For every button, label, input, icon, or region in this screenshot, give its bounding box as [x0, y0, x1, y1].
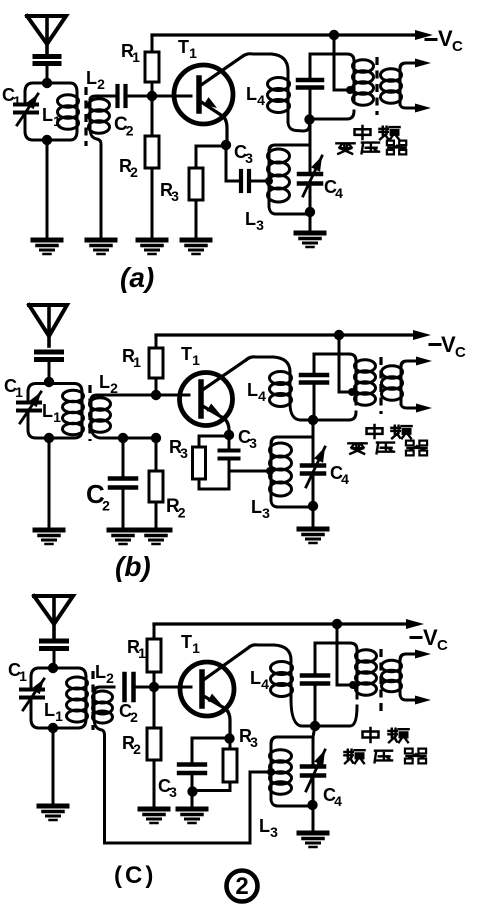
svg-text:1: 1	[53, 113, 61, 129]
svg-text:L: L	[99, 372, 110, 392]
IF transformer core (b)	[379, 357, 382, 414]
svg-text:1: 1	[133, 354, 141, 370]
circuit (c) antenna coupling capacitor	[42, 641, 67, 667]
label L3 (b)	[251, 497, 270, 521]
inductor L2 (b)	[90, 395, 190, 438]
capacitor C2 (a)	[118, 86, 126, 106]
label T1 (b)	[181, 344, 200, 368]
wire: tank junction to L3 loop (b)	[312, 420, 315, 464]
node: primary tap (a)	[346, 86, 354, 94]
label 变压器 (a)	[336, 141, 406, 155]
svg-text:L: L	[247, 380, 258, 400]
svg-text:L: L	[42, 401, 53, 421]
svg-text:1: 1	[132, 49, 140, 65]
svg-text:L: L	[245, 209, 256, 229]
node: tank bottom junction (a)	[42, 135, 52, 145]
wire: IF tank top (b)	[314, 354, 356, 361]
resistor R3 (c)	[194, 738, 237, 791]
svg-text:C: C	[452, 38, 463, 55]
node: base junction (a)	[147, 91, 157, 101]
IF transformer core (c)	[379, 649, 382, 713]
wire: base (a)	[152, 95, 191, 98]
label (b)	[115, 551, 151, 582]
node: antenna-tank junction (c)	[48, 663, 58, 673]
svg-text:3: 3	[256, 217, 264, 233]
svg-text:T: T	[178, 37, 189, 57]
capacitor: IF tank cap (b)	[301, 354, 327, 419]
label (C)	[114, 862, 156, 889]
resistor R1 (b)	[149, 335, 163, 395]
wire: tank bottom (c)	[31, 719, 86, 728]
label R3 (a)	[160, 180, 179, 204]
label L2 (a)	[86, 68, 105, 92]
svg-text:4: 4	[258, 388, 266, 404]
ground (a) L2	[87, 240, 115, 254]
ground (c) L1 tank	[39, 806, 67, 820]
svg-text:1: 1	[53, 409, 61, 425]
IF transformer core (a)	[375, 57, 378, 115]
label C1 (a)	[2, 85, 21, 109]
node: collector tank bottom junction (b)	[308, 415, 318, 425]
svg-text:L: L	[44, 700, 55, 720]
label L1 (a)	[42, 105, 61, 129]
circuit (b) antenna coupling capacitor	[37, 352, 62, 381]
svg-text:1: 1	[55, 708, 63, 724]
label R3 (b)	[169, 437, 188, 461]
label 频压器 (c)	[344, 749, 426, 764]
node: emitter junction (c)	[224, 733, 234, 743]
inductor L4 (a)	[268, 54, 310, 131]
inductor L2 (a)	[89, 96, 117, 240]
svg-text:3: 3	[249, 435, 257, 451]
figure number 2 circled	[227, 871, 258, 902]
ground (b) L3 C4	[299, 506, 327, 543]
svg-text:2: 2	[97, 76, 105, 92]
svg-text:1: 1	[189, 45, 197, 61]
ground (c) C3 R3	[178, 791, 206, 823]
resistor R2 (a)	[145, 96, 159, 240]
wire: supply rail (c)	[154, 619, 424, 629]
label L4 (a)	[246, 84, 265, 108]
IF transformer primary coil (a)	[310, 60, 374, 119]
svg-text:T: T	[181, 632, 192, 652]
capacitor C3 (b)	[220, 436, 239, 489]
node: base junction (b)	[151, 390, 161, 400]
inductor L3 (b)	[270, 437, 312, 507]
label R2 (b)	[166, 496, 186, 520]
inductor L4 (b)	[270, 357, 312, 420]
svg-text:4: 4	[335, 185, 343, 201]
node: base junction (c)	[149, 682, 159, 692]
inductor L1 (b)	[63, 390, 84, 435]
svg-text:(a): (a)	[120, 262, 154, 293]
circuit (a) antenna coupling capacitor	[35, 57, 59, 83]
node: emitter junction (a)	[221, 140, 231, 150]
svg-text:2: 2	[133, 741, 141, 757]
capacitor C4 (a) variable	[299, 156, 322, 212]
resistor R2 (b)	[149, 438, 163, 530]
label L3 (c)	[259, 816, 278, 840]
label C2 (b)	[86, 479, 110, 513]
wire: tank bottom (b)	[28, 430, 82, 438]
node: tank bottom junction (b)	[44, 433, 54, 443]
svg-text:L: L	[246, 84, 257, 104]
svg-text:4: 4	[341, 471, 349, 487]
transistor T1 (a)	[174, 56, 243, 145]
wire: emitter network to L3 tap (b)	[229, 470, 269, 473]
wire: tank top (b)	[28, 384, 82, 393]
label C3 (b)	[238, 427, 257, 451]
ground (a) R3	[182, 240, 210, 254]
node: collector tank bottom junction (a)	[304, 114, 314, 124]
node: primary tap (c)	[349, 681, 357, 689]
svg-text:3: 3	[250, 734, 258, 750]
ground (b) R2	[142, 530, 170, 544]
node: antenna-tank junction (b)	[44, 377, 54, 387]
label L3 (a)	[245, 209, 264, 233]
label -Vc (b)	[430, 332, 466, 361]
circuit (b) antenna	[29, 305, 67, 346]
label L4 (b)	[247, 380, 266, 404]
svg-text:3: 3	[262, 505, 270, 521]
label C1 (b)	[4, 376, 23, 400]
inductor L3 (c)	[270, 737, 313, 806]
node: L3 tap (c)	[267, 768, 275, 776]
svg-text:3: 3	[180, 445, 188, 461]
capacitor C1 (b) variable	[18, 392, 41, 430]
svg-text:2: 2	[106, 670, 114, 686]
node: collector tank bottom junction (c)	[310, 721, 320, 731]
node: tank bottom junction (c)	[48, 723, 58, 733]
wire: feedback bottom run (c)	[105, 772, 270, 843]
ferrite core dashed line (c)	[91, 671, 94, 730]
node: emitter junction (b)	[224, 430, 234, 440]
label L1 (b)	[42, 401, 61, 425]
svg-text:4: 4	[257, 92, 265, 108]
svg-text:1: 1	[138, 645, 146, 661]
IF transformer secondary coil (a)	[381, 59, 432, 113]
svg-text:3: 3	[245, 150, 253, 166]
svg-text:1: 1	[192, 352, 200, 368]
svg-text:L: L	[42, 105, 53, 125]
wire: IF tank top (c)	[315, 643, 357, 650]
svg-text:L: L	[250, 668, 261, 688]
wire: collector to L4 (c)	[248, 645, 274, 648]
node: L3 bottom junction (b)	[308, 501, 318, 511]
capacitor C3 (a)	[226, 146, 268, 191]
svg-text:2: 2	[102, 497, 110, 513]
label C4 (c)	[323, 785, 342, 809]
resistor R3 (a)	[189, 168, 203, 240]
label L2 (c)	[95, 662, 114, 686]
resistor R1 (a)	[145, 35, 159, 96]
resistor R3 (b)	[193, 447, 229, 489]
label L2 (b)	[99, 372, 118, 396]
label T1 (a)	[178, 37, 197, 61]
node: R2 top junction (b)	[151, 433, 161, 443]
wire: base (c)	[154, 686, 191, 689]
label 中频 (c)	[363, 728, 409, 742]
node: L3 bottom junction (c)	[307, 800, 317, 810]
ground (a) L3 C4	[296, 212, 324, 247]
wire: Vc tap to primary (b)	[339, 335, 352, 392]
label R3 (c)	[239, 726, 258, 750]
wire: L2 bottom to R2 (b)	[123, 437, 156, 440]
wire: tank to L3 loop (a)	[309, 119, 312, 172]
node: antenna-tank junction (a)	[42, 78, 52, 88]
IF transformer secondary coil (c)	[382, 650, 432, 705]
capacitor C2 (c)	[125, 674, 134, 700]
inductor L4 (c)	[271, 645, 313, 726]
wire: tank to ground (b)	[48, 438, 51, 530]
svg-text:3: 3	[169, 784, 177, 800]
label 中频 (a)	[355, 126, 400, 139]
wire: supply rail (a)	[152, 30, 433, 40]
wire: emitter node to R3 (a)	[196, 146, 224, 168]
svg-text:2: 2	[130, 164, 138, 180]
svg-text:2: 2	[178, 504, 186, 520]
svg-text:V: V	[438, 26, 453, 51]
label C1 (c)	[8, 660, 27, 684]
ferrite core dashed line (a)	[84, 87, 87, 146]
label C2 (a)	[114, 114, 134, 138]
label C4 (a)	[324, 177, 343, 201]
label T1 (c)	[181, 632, 200, 656]
node: rail junction (c)	[332, 619, 342, 629]
svg-text:4: 4	[261, 676, 269, 692]
svg-text:T: T	[181, 344, 192, 364]
svg-text:(b): (b)	[115, 551, 151, 582]
wire: collector to L4 (b)	[246, 357, 273, 360]
label R1 (a)	[121, 41, 140, 65]
svg-text:V: V	[441, 332, 456, 357]
svg-text:2: 2	[235, 873, 248, 900]
node: primary tap (b)	[348, 388, 356, 396]
svg-text:2: 2	[126, 122, 134, 138]
IF transformer primary coil (c)	[315, 650, 377, 726]
svg-text:4: 4	[334, 793, 342, 809]
IF transformer secondary coil (b)	[382, 357, 433, 413]
inductor L1 (a)	[58, 92, 79, 131]
svg-text:1: 1	[13, 93, 21, 109]
transistor T1 (b)	[180, 360, 247, 435]
capacitor C4 (c) variable	[302, 750, 325, 804]
label L1 (c)	[44, 700, 63, 724]
wire: tank junction to L3 loop (c)	[313, 726, 315, 765]
wire: C2 to base (c)	[135, 686, 152, 689]
node: rail junction (b)	[334, 330, 344, 340]
inductor L1 (c)	[67, 677, 88, 722]
svg-text:C: C	[437, 637, 448, 654]
node: L3 tap (a)	[265, 177, 273, 185]
IF transformer primary coil (b)	[313, 360, 376, 420]
label 变压器 (b)	[348, 441, 427, 456]
label R2 (a)	[119, 156, 138, 180]
wire: tank bottom (a)	[25, 131, 77, 140]
label 中频 (b)	[367, 425, 412, 438]
label -Vc (a)	[426, 26, 463, 55]
label C3 (c)	[158, 776, 177, 800]
svg-text:1: 1	[19, 668, 27, 684]
ground (a) R2	[138, 240, 166, 254]
svg-text:V: V	[423, 625, 438, 650]
svg-text:1: 1	[15, 384, 23, 400]
svg-text:C: C	[455, 344, 466, 361]
capacitor C1 (a) variable	[15, 92, 38, 131]
svg-text:2: 2	[110, 380, 118, 396]
wire: Vc tap to primary (a)	[334, 35, 350, 90]
label R1 (c)	[127, 637, 146, 661]
ground (b) C2	[109, 530, 137, 544]
inductor L3 (a)	[268, 145, 309, 214]
capacitor C3 (c)	[179, 738, 205, 791]
capacitor C1 (c) variable	[21, 677, 44, 719]
wire: tank to ground (a)	[46, 140, 49, 240]
label R1 (b)	[122, 346, 141, 370]
capacitor: IF tank cap (a)	[298, 54, 322, 119]
circuit (c) antenna	[34, 596, 73, 639]
svg-text:L: L	[86, 68, 97, 88]
capacitor C4 (b) variable	[302, 447, 325, 506]
wire: IF tank top (a)	[310, 54, 354, 61]
svg-text:1: 1	[192, 640, 200, 656]
wire: tank top (a)	[25, 83, 77, 92]
node: rail junction (a)	[329, 30, 339, 40]
svg-text:L: L	[259, 816, 270, 836]
label (a)	[120, 262, 154, 293]
svg-text:(C): (C)	[114, 862, 156, 889]
ground (a) L1 tank	[33, 240, 61, 254]
wire: Vc tap to primary (c)	[337, 624, 353, 685]
label R2 (c)	[122, 733, 141, 757]
ground (c) L3 C4	[299, 805, 327, 847]
svg-text:3: 3	[270, 824, 278, 840]
svg-text:2: 2	[130, 709, 138, 725]
wire: collector to L4 (a)	[243, 54, 271, 56]
transistor T1 (c)	[180, 648, 248, 739]
inductor L2 (c)	[93, 687, 115, 843]
node: C3 R3 bottom junction (c)	[187, 786, 197, 796]
svg-text:L: L	[251, 497, 262, 517]
capacitor C2 (b)	[110, 438, 136, 530]
wire: tank top (c)	[31, 668, 86, 677]
ground (c) R2	[140, 809, 168, 823]
circuit (a) antenna	[27, 16, 66, 53]
wire: C2 to base (a)	[127, 95, 150, 98]
resistor R2 (c)	[147, 687, 161, 809]
svg-text:L: L	[95, 662, 106, 682]
wire: emitter node to R3 (b)	[199, 436, 227, 447]
resistor R1 (c)	[147, 624, 161, 687]
ferrite core dashed line (b)	[88, 385, 91, 441]
capacitor: IF tank cap (c)	[302, 643, 328, 724]
node: L2 bottom junction (b)	[118, 433, 128, 443]
wire: supply rail (b)	[156, 330, 431, 340]
label C2 (c)	[119, 701, 138, 725]
node: L3 tap (b)	[266, 467, 274, 475]
node: L3 bottom junction (a)	[305, 207, 315, 217]
label C3 (a)	[234, 142, 253, 166]
label L4 (c)	[250, 668, 269, 692]
label C4 (b)	[330, 463, 349, 487]
label -Vc (c)	[411, 625, 448, 654]
wire: tank to ground (c)	[52, 728, 55, 806]
ground (b) L1 tank	[35, 530, 63, 544]
wire: emitter node to C3 (c)	[192, 737, 228, 740]
svg-text:3: 3	[171, 188, 179, 204]
